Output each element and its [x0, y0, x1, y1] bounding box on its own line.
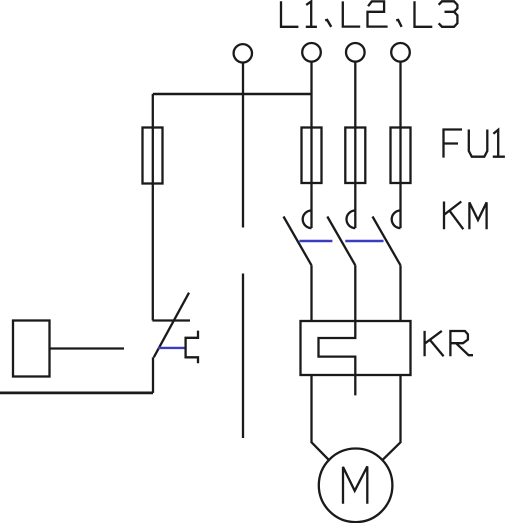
motor letter M: [343, 466, 367, 503]
pushbutton actuator bracket: [186, 331, 198, 364]
wire phase L1 lower to motor: [312, 375, 330, 461]
wire top horizontal bus: [153, 93, 312, 96]
fuse FU1 phase L1: [302, 128, 322, 184]
contactor KM main contact pole 3: [373, 211, 401, 266]
fuse FU1 phase L2: [345, 128, 365, 184]
contactor KM main contact pole 1: [284, 211, 312, 266]
motor M circle: [319, 449, 393, 523]
wire control-branch vertical lower: [242, 274, 244, 439]
label L1、L2、L3: [281, 1, 457, 27]
wire phase L1 middle: [310, 265, 312, 321]
wire control-branch vertical upper: [242, 63, 244, 228]
thermal relay KR box: [301, 321, 411, 375]
KR heater element jog (middle phase): [319, 321, 356, 395]
fuse FU1 phase L3: [391, 128, 411, 184]
wire bottom bus: [0, 391, 153, 394]
KM mechanical linkage dash 2 (blue): [345, 240, 383, 242]
label KR: [425, 331, 473, 356]
NC pushbutton fixed contact tick: [153, 319, 191, 321]
control box link line: [49, 347, 124, 349]
pushbutton link (blue): [158, 347, 186, 349]
wire phase L3 middle: [399, 265, 401, 321]
wire phase L2 upper: [354, 62, 356, 228]
terminal circle L2: [346, 43, 365, 62]
wire phase L3 upper: [399, 62, 401, 228]
wire phase L1 upper: [310, 62, 312, 228]
contactor KM main contact pole 2: [327, 211, 355, 266]
terminal circle L3: [391, 43, 410, 62]
terminal circle L1: [302, 43, 321, 62]
wire below pushbutton: [152, 357, 154, 393]
KM mechanical linkage dash 1 (blue): [299, 240, 332, 242]
fuse FU control branch: [143, 128, 163, 184]
label KM: [444, 202, 487, 230]
control box housing: [13, 321, 50, 377]
wire phase L2 middle: [354, 265, 356, 321]
terminal circle control branch: [234, 44, 252, 62]
wire phase L3 lower to motor: [383, 375, 401, 460]
label FU1: [444, 130, 505, 158]
NC pushbutton moving contact diagonal: [154, 293, 189, 358]
wire left branch vertical: [152, 94, 154, 321]
